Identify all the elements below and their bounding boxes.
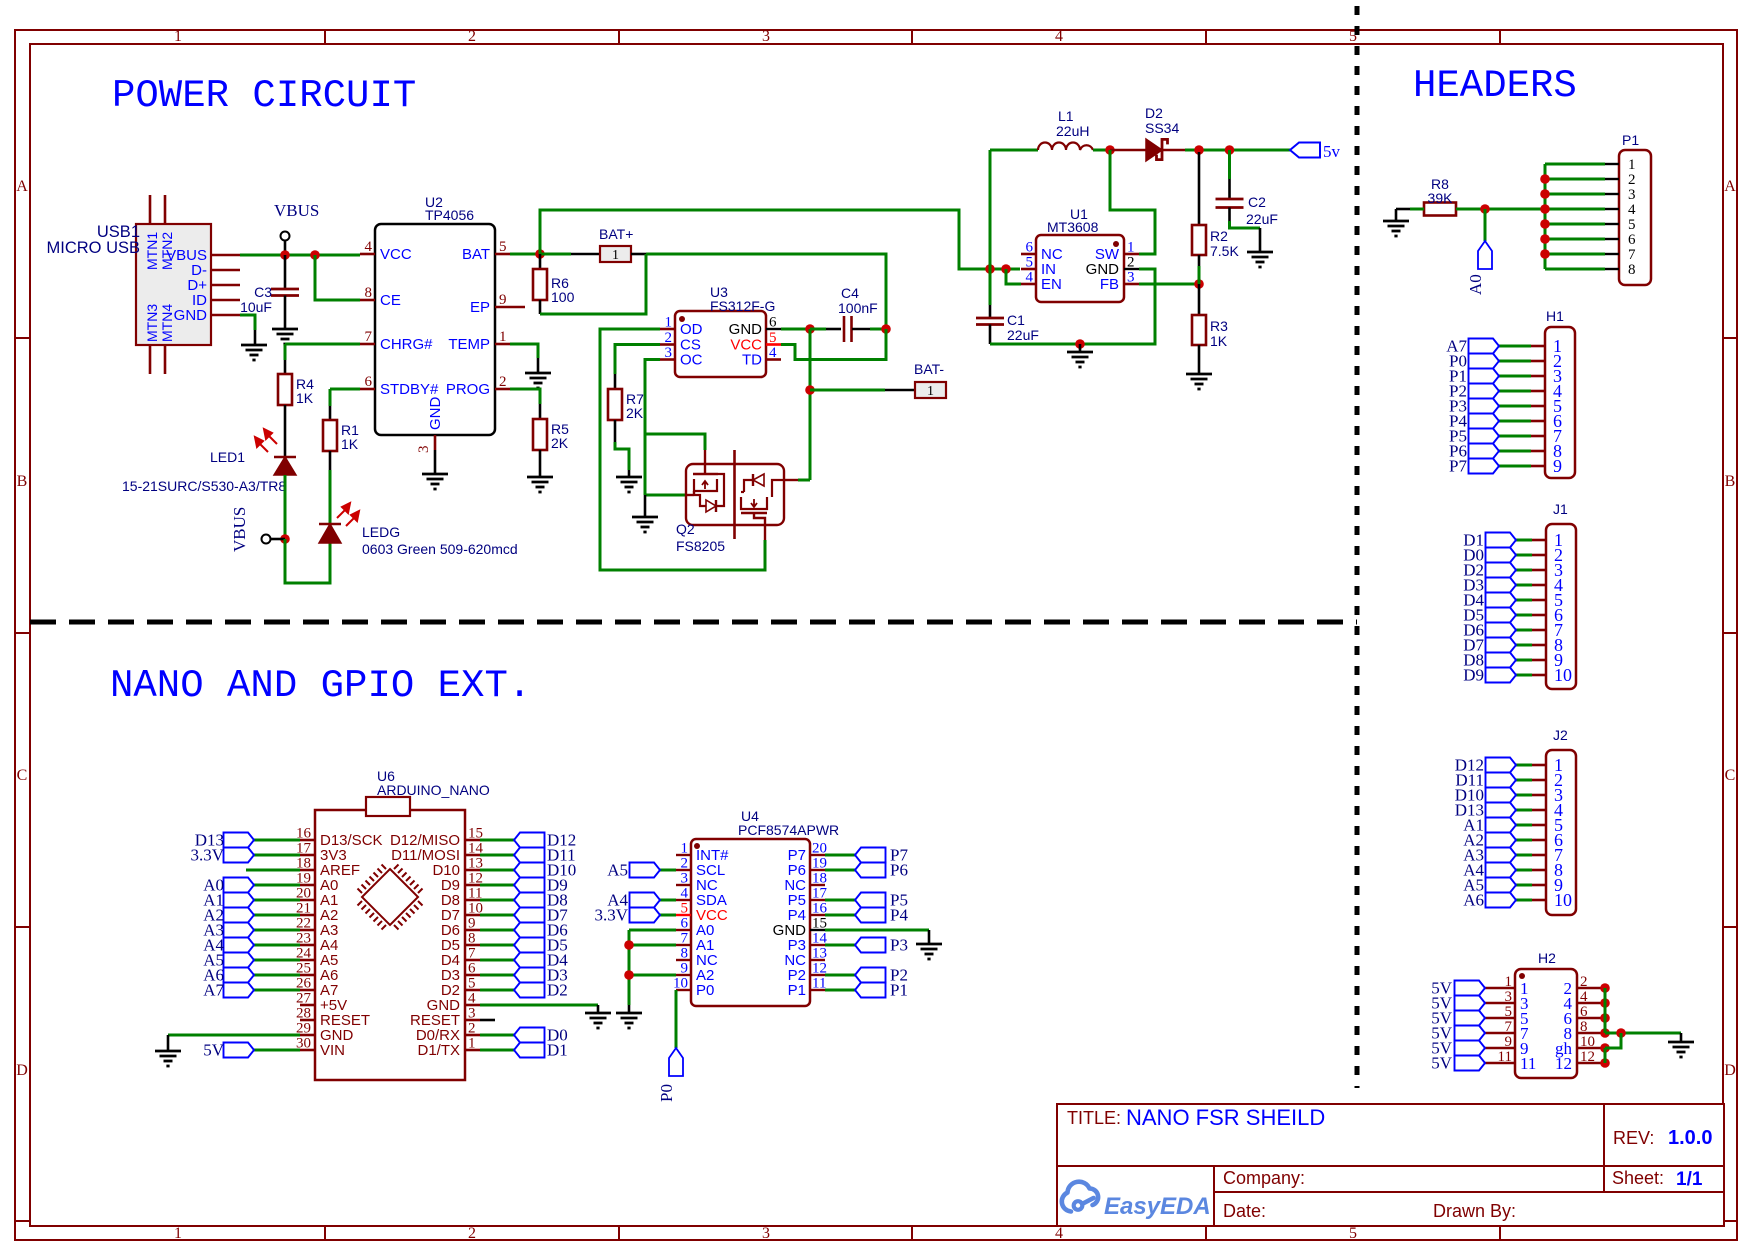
wire R1 to LEDG bbox=[329, 451, 332, 470]
svg-text:2: 2 bbox=[1127, 255, 1135, 271]
net flag D2 at U6 pin 5 bbox=[480, 989, 514, 992]
U6 pin 14 D11/MOSI bbox=[465, 854, 480, 857]
svg-text:39K: 39K bbox=[1428, 190, 1454, 206]
svg-text:P3: P3 bbox=[890, 936, 908, 955]
ground left of R8 bbox=[1383, 220, 1409, 223]
svg-text:B: B bbox=[17, 473, 28, 490]
wire PROG to R5 bbox=[510, 389, 540, 404]
U6 pin 15 D12/MISO bbox=[465, 839, 480, 842]
svg-text:P4: P4 bbox=[890, 906, 908, 925]
connector BAT+ pin 1 box bbox=[600, 246, 631, 262]
svg-text:2: 2 bbox=[681, 856, 689, 872]
svg-text:100nF: 100nF bbox=[838, 300, 878, 316]
ground under R7 bbox=[616, 476, 642, 479]
U6 pin 6 D3 bbox=[465, 974, 480, 977]
J1 pin 4 net D3 bbox=[1532, 584, 1546, 587]
net flag D13 at U6 pin 16 bbox=[254, 839, 300, 842]
wire USB1 VBUS to U2 VCC bbox=[240, 254, 360, 257]
Q2 right source pin bbox=[784, 479, 798, 481]
J2 pin 2 net D11 bbox=[1532, 779, 1546, 782]
svg-text:1: 1 bbox=[499, 329, 507, 345]
net flag D9 at U6 pin 12 bbox=[480, 884, 514, 887]
wire R7 to ground bbox=[614, 420, 617, 442]
Q2 center divider line bbox=[733, 450, 736, 539]
svg-text:10: 10 bbox=[1554, 665, 1572, 685]
svg-text:NANO AND GPIO EXT.: NANO AND GPIO EXT. bbox=[110, 664, 531, 708]
svg-text:6: 6 bbox=[1026, 240, 1034, 256]
svg-text:7: 7 bbox=[365, 329, 373, 345]
U4 pin 19 P6 bbox=[810, 869, 825, 871]
Q2 right body diode bbox=[772, 480, 784, 486]
svg-text:LED1: LED1 bbox=[210, 449, 245, 465]
net flag P4 bbox=[825, 914, 855, 917]
IC U3 FS312F-G body bbox=[675, 311, 766, 377]
U4 pin 8 NC bbox=[676, 959, 691, 961]
svg-text:2: 2 bbox=[1628, 172, 1636, 188]
svg-text:D1/TX: D1/TX bbox=[417, 1042, 460, 1059]
svg-text:2: 2 bbox=[468, 1225, 476, 1242]
U6 pin 21 A2 bbox=[300, 914, 315, 917]
connector P1 body bbox=[1619, 150, 1651, 285]
svg-text:ARDUINO_NANO: ARDUINO_NANO bbox=[377, 782, 490, 798]
wire BAT junction to BAT+ connector bbox=[540, 253, 571, 256]
Q2 left MOSFET bbox=[704, 450, 706, 474]
resistor R6 100 bbox=[539, 254, 542, 269]
J1 pin 5 net D4 bbox=[1532, 599, 1546, 602]
svg-text:LEDG: LEDG bbox=[362, 524, 400, 540]
U3 right pins bbox=[766, 328, 781, 330]
net flag P2 bbox=[825, 974, 855, 977]
ground under USB1 GND bbox=[241, 344, 267, 347]
U2 pin 9 EP bbox=[495, 306, 525, 309]
svg-text:4: 4 bbox=[769, 345, 777, 361]
svg-text:22uF: 22uF bbox=[1007, 327, 1039, 343]
U6 pin 18 AREF bbox=[300, 869, 315, 872]
U6 pin 5 D2 bbox=[465, 989, 480, 992]
svg-text:11: 11 bbox=[1520, 1054, 1536, 1073]
svg-text:1: 1 bbox=[681, 841, 689, 857]
svg-text:H2: H2 bbox=[1538, 950, 1556, 966]
svg-text:NANO FSR SHEILD: NANO FSR SHEILD bbox=[1126, 1105, 1325, 1130]
wire top rail from C1 to L1 bbox=[990, 149, 1038, 152]
svg-text:5v: 5v bbox=[1323, 142, 1341, 161]
svg-text:4: 4 bbox=[1580, 989, 1588, 1005]
svg-text:H1: H1 bbox=[1546, 308, 1564, 324]
svg-text:A7: A7 bbox=[203, 981, 224, 1000]
net flag P3 bbox=[825, 944, 855, 947]
connector BAT- pin 1 box bbox=[915, 382, 946, 398]
U4 pin 4 SDA bbox=[676, 899, 691, 901]
wire OC node to ground bbox=[644, 495, 647, 517]
svg-text:MTN4: MTN4 bbox=[159, 304, 175, 342]
LEDG arrows bbox=[337, 503, 359, 526]
wire C4 right to BAT+ node bbox=[852, 328, 870, 331]
junction L1-D2 SW node bbox=[1105, 145, 1115, 155]
svg-text:9: 9 bbox=[681, 961, 689, 977]
wire OC pin down bbox=[645, 360, 660, 496]
svg-text:HEADERS: HEADERS bbox=[1413, 64, 1577, 108]
svg-text:4: 4 bbox=[1628, 202, 1636, 218]
wire VBUS bottom to LEDG chain bbox=[285, 539, 330, 583]
ground under C3 bbox=[272, 328, 298, 331]
wire U1 GND rail bbox=[990, 269, 1155, 344]
ground under U2 GND bbox=[422, 473, 448, 476]
U6 pin 19 A0 bbox=[300, 884, 315, 887]
wire R6 bottom loop to BAT+ node bbox=[539, 300, 542, 314]
U6 pin 11 D8 bbox=[465, 899, 480, 902]
svg-text:Q2: Q2 bbox=[676, 521, 695, 537]
ground right of H2 bbox=[1668, 1041, 1694, 1044]
svg-text:12: 12 bbox=[812, 961, 827, 977]
svg-text:3: 3 bbox=[468, 1006, 476, 1022]
U6 pin 26 A7 bbox=[300, 989, 315, 992]
U6 chip glyph bbox=[358, 865, 423, 930]
net flag A7 at U6 pin 26 bbox=[254, 989, 300, 992]
svg-text:C1: C1 bbox=[1007, 312, 1025, 328]
H2 left pin 7 net 5V bbox=[1485, 1032, 1515, 1035]
junction P1 bus pin 7 bbox=[1540, 249, 1550, 259]
junction A0 branch bbox=[1480, 204, 1490, 214]
wire R4 to LED1 bbox=[284, 405, 287, 457]
capacitor C4 100nF bbox=[843, 316, 846, 342]
wire D2 to 5v flag bbox=[1163, 149, 1185, 152]
U6 top notch bbox=[366, 797, 410, 816]
svg-text:5V: 5V bbox=[203, 1041, 225, 1060]
svg-text:EN: EN bbox=[1041, 276, 1062, 293]
svg-text:C: C bbox=[1725, 767, 1736, 784]
wire STDBY# to R1 bbox=[330, 388, 360, 391]
svg-text:1K: 1K bbox=[1210, 333, 1228, 349]
H1 pin 1 net A7 bbox=[1531, 345, 1545, 348]
wire C1 vertical bbox=[989, 150, 992, 269]
svg-text:12: 12 bbox=[1580, 1049, 1595, 1065]
ground under OC node bbox=[632, 516, 658, 519]
svg-text:3: 3 bbox=[1127, 270, 1135, 286]
U6 pin 24 A5 bbox=[300, 959, 315, 962]
svg-text:C3: C3 bbox=[254, 284, 272, 300]
dashed section divider vertical bbox=[1355, 6, 1360, 1088]
svg-text:7: 7 bbox=[468, 946, 476, 962]
H2 right pin 2 bbox=[1577, 987, 1605, 990]
svg-text:EP: EP bbox=[470, 299, 490, 316]
svg-text:GND: GND bbox=[174, 307, 208, 324]
svg-text:8: 8 bbox=[468, 931, 476, 947]
U2 pin 4 VCC bbox=[360, 253, 375, 256]
svg-text:FS312F-G: FS312F-G bbox=[710, 298, 775, 314]
svg-text:3: 3 bbox=[665, 345, 673, 361]
U6 pin 3 RESET bbox=[465, 1019, 480, 1022]
svg-text:MTN3: MTN3 bbox=[144, 304, 160, 342]
junction C2 top bbox=[1225, 145, 1235, 155]
svg-text:5: 5 bbox=[499, 239, 507, 255]
H2 right pin 8 bbox=[1577, 1032, 1605, 1035]
LED LEDG bbox=[319, 523, 341, 526]
junction BAT node bbox=[535, 249, 545, 259]
ground under U4 GND15 bbox=[916, 943, 942, 946]
wire U3 GND pin to C4 bbox=[781, 328, 810, 331]
svg-text:4: 4 bbox=[468, 991, 476, 1007]
svg-text:A: A bbox=[16, 178, 28, 195]
U6 pin 22 A3 bbox=[300, 929, 315, 932]
svg-text:C: C bbox=[17, 767, 28, 784]
P1 pins and bus bbox=[1605, 163, 1619, 165]
connector H1 body bbox=[1545, 327, 1575, 478]
svg-text:9: 9 bbox=[1505, 1034, 1513, 1050]
H1 pin 7 net P5 bbox=[1531, 435, 1545, 438]
U1 pin 5 IN bbox=[1021, 268, 1036, 271]
svg-text:10: 10 bbox=[673, 976, 688, 992]
connector USB1 MICRO USB body bbox=[136, 224, 211, 345]
svg-text:Drawn By:: Drawn By: bbox=[1433, 1201, 1516, 1221]
J1 pin 7 net D6 bbox=[1532, 629, 1546, 632]
svg-text:D9: D9 bbox=[1463, 666, 1484, 685]
svg-text:OD: OD bbox=[680, 321, 703, 338]
U6 pin 29 GND bbox=[300, 1034, 315, 1037]
svg-text:10: 10 bbox=[1554, 890, 1572, 910]
svg-text:1/1: 1/1 bbox=[1676, 1169, 1703, 1190]
wire FB to divider bbox=[1139, 283, 1199, 286]
U6 pin 9 D6 bbox=[465, 929, 480, 932]
svg-text:A5: A5 bbox=[607, 861, 628, 880]
junction VBUS bottom bbox=[280, 534, 290, 544]
IC U4 PCF8574APWR body bbox=[691, 839, 810, 1006]
svg-text:10uF: 10uF bbox=[240, 299, 272, 315]
H1 pin 9 net P7 bbox=[1531, 465, 1545, 468]
U6 pin 10 D7 bbox=[465, 914, 480, 917]
U4 pin 3 NC bbox=[676, 884, 691, 886]
net flag A1 at U6 pin 20 bbox=[254, 899, 300, 902]
svg-text:VIN: VIN bbox=[320, 1042, 345, 1059]
svg-text:OC: OC bbox=[680, 352, 703, 369]
J2 pin 5 net A1 bbox=[1532, 824, 1546, 827]
svg-text:P6: P6 bbox=[890, 861, 908, 880]
capacitor C1 22uF bbox=[976, 317, 1004, 320]
H2 right pin 10 bbox=[1577, 1047, 1605, 1050]
U6 pin 13 D10 bbox=[465, 869, 480, 872]
svg-text:1: 1 bbox=[174, 1225, 182, 1242]
wire C2 bottom to ground bbox=[1228, 208, 1231, 222]
svg-text:4: 4 bbox=[365, 239, 373, 255]
U6 pin 8 D5 bbox=[465, 944, 480, 947]
resistor R8 39K bbox=[1424, 203, 1456, 216]
svg-text:PCF8574APWR: PCF8574APWR bbox=[738, 822, 839, 838]
wire BAT- branch bbox=[810, 389, 885, 392]
U1 right pins bbox=[1124, 253, 1139, 256]
U6 pin 16 D13/SCK bbox=[300, 839, 315, 842]
U6 pin 30 VIN bbox=[300, 1049, 315, 1052]
net flag D8 at U6 pin 11 bbox=[480, 899, 514, 902]
U2 pin 5 BAT bbox=[495, 253, 510, 256]
U2 pin 1 TEMP bbox=[495, 343, 510, 346]
svg-text:TEMP: TEMP bbox=[448, 336, 490, 353]
svg-text:D: D bbox=[1724, 1062, 1736, 1079]
svg-text:C2: C2 bbox=[1248, 194, 1266, 210]
IC U2 TP4056 body bbox=[375, 224, 495, 435]
wire AREF stub bbox=[246, 869, 300, 872]
wire to Q2 left source bbox=[645, 494, 686, 497]
svg-text:0603 Green 509-620mcd: 0603 Green 509-620mcd bbox=[362, 541, 518, 557]
svg-text:TITLE:: TITLE: bbox=[1067, 1108, 1121, 1128]
USB1 pin stubs bbox=[211, 254, 240, 257]
ground under U4 address pins bbox=[616, 1012, 642, 1015]
svg-text:A0: A0 bbox=[1466, 274, 1485, 295]
J2 pin 7 net A3 bbox=[1532, 854, 1546, 857]
net flag 3.3V at U4 VCC bbox=[660, 914, 676, 917]
svg-text:3.3V: 3.3V bbox=[190, 846, 224, 865]
wire U4 GND15 to ground bbox=[825, 929, 929, 932]
net flag D11 at U6 pin 14 bbox=[480, 854, 514, 857]
svg-text:SS34: SS34 bbox=[1145, 120, 1179, 136]
net flag A3 at U6 pin 22 bbox=[254, 929, 300, 932]
svg-text:3: 3 bbox=[681, 871, 689, 887]
H1 pin 8 net P6 bbox=[1531, 450, 1545, 453]
svg-text:27: 27 bbox=[296, 991, 312, 1007]
U6 pin 1 D1/TX bbox=[465, 1049, 480, 1052]
net flag D3 at U6 pin 6 bbox=[480, 974, 514, 977]
U3 pin 3 OC bbox=[660, 358, 675, 361]
svg-text:1: 1 bbox=[1505, 974, 1513, 990]
title block frame bbox=[1057, 1104, 1724, 1226]
capacitor C2 22uF bbox=[1228, 150, 1231, 179]
U4 pin 17 P5 bbox=[810, 899, 825, 901]
wire EN branch bbox=[1006, 269, 1021, 284]
wire LED1 to VBUS node bbox=[284, 475, 287, 539]
wire C3 top bbox=[284, 255, 287, 289]
J1 pin 1 net D1 bbox=[1532, 539, 1546, 542]
svg-text:9: 9 bbox=[468, 916, 476, 932]
U4 pin 12 P2 bbox=[810, 974, 825, 976]
svg-text:8: 8 bbox=[681, 946, 689, 962]
U2 pin 2 PROG bbox=[495, 388, 510, 391]
wire VCC pin routing bbox=[766, 343, 781, 345]
U6 pin 17 3V3 bbox=[300, 854, 315, 857]
net flag D1 at U6 pin 1 bbox=[480, 1049, 514, 1052]
svg-text:C4: C4 bbox=[841, 285, 859, 301]
net flag P6 bbox=[825, 869, 855, 872]
U4 pin 6 A0 bbox=[676, 929, 691, 931]
svg-text:7: 7 bbox=[681, 931, 689, 947]
net port VBUS bottom circle bbox=[271, 538, 285, 541]
H2 left pin 3 net 5V bbox=[1485, 1002, 1515, 1005]
H2 right pin 6 bbox=[1577, 1017, 1605, 1020]
svg-text:3: 3 bbox=[416, 446, 432, 454]
wire U6 GND4 to ground bbox=[480, 1004, 598, 1007]
wire C3 bottom bbox=[284, 296, 287, 330]
junction P1 bus pin 2 bbox=[1540, 174, 1550, 184]
wire U4 P0 to flag bbox=[675, 990, 678, 1048]
svg-text:4: 4 bbox=[681, 886, 689, 902]
U1 pin 4 EN bbox=[1021, 283, 1036, 286]
wire R3 to ground bbox=[1198, 345, 1201, 374]
net flag 3.3V at U6 pin 17 bbox=[254, 854, 300, 857]
svg-text:4: 4 bbox=[1026, 270, 1034, 286]
U4 pin 13 NC bbox=[810, 959, 825, 961]
svg-text:6: 6 bbox=[468, 961, 476, 977]
H2 ground bus bbox=[1604, 988, 1607, 1033]
svg-text:MICRO USB: MICRO USB bbox=[46, 239, 140, 257]
diode D2 SS34 schottky bbox=[1146, 139, 1162, 161]
wire C1 bottom to GND rail bbox=[989, 325, 992, 345]
svg-text:J1: J1 bbox=[1553, 501, 1568, 517]
LED1 arrows bbox=[255, 429, 277, 452]
svg-text:P1: P1 bbox=[890, 981, 908, 1000]
ground under C2 bbox=[1247, 251, 1273, 254]
Q2 left source lead bbox=[686, 494, 694, 496]
svg-text:12: 12 bbox=[1555, 1054, 1572, 1073]
svg-text:15: 15 bbox=[812, 916, 827, 932]
net flag A0 at U6 pin 19 bbox=[254, 884, 300, 887]
svg-text:STDBY#: STDBY# bbox=[380, 381, 439, 398]
svg-text:1K: 1K bbox=[341, 436, 359, 452]
inductor L1 22uH bbox=[1038, 143, 1093, 150]
svg-text:3: 3 bbox=[762, 28, 770, 45]
connector J2 body bbox=[1546, 750, 1576, 915]
svg-text:POWER CIRCUIT: POWER CIRCUIT bbox=[112, 74, 416, 118]
wire BAT pin to junction bbox=[510, 253, 540, 256]
junction IN node EN bbox=[1001, 264, 1011, 274]
wire U2 GND to ground bbox=[434, 450, 437, 474]
svg-text:6: 6 bbox=[1580, 1004, 1588, 1020]
U4 pin 9 A2 bbox=[676, 974, 691, 976]
svg-text:VBUS: VBUS bbox=[230, 507, 249, 552]
net flag D0 at U6 pin 2 bbox=[480, 1034, 514, 1037]
wire U3 GND down to BAT- and Q2 bbox=[809, 329, 812, 480]
net flag A5 at U6 pin 24 bbox=[254, 959, 300, 962]
H2 ground bus jog bbox=[1605, 1033, 1621, 1048]
svg-text:100: 100 bbox=[551, 289, 575, 305]
J1 pin 10 net D9 bbox=[1532, 674, 1546, 677]
svg-text:20: 20 bbox=[812, 841, 827, 857]
net flag A5 at U4 SCL bbox=[660, 869, 676, 872]
net flag D5 at U6 pin 8 bbox=[480, 944, 514, 947]
svg-text:5: 5 bbox=[681, 901, 689, 917]
H2 left pin 5 net 5V bbox=[1485, 1017, 1515, 1020]
junction R2 top bbox=[1194, 145, 1204, 155]
svg-text:2K: 2K bbox=[551, 435, 569, 451]
svg-text:TP4056: TP4056 bbox=[425, 207, 474, 223]
net flag D4 at U6 pin 7 bbox=[480, 959, 514, 962]
junction IN node C1 bbox=[985, 264, 995, 274]
svg-text:28: 28 bbox=[296, 1006, 311, 1022]
svg-text:Sheet:: Sheet: bbox=[1612, 1168, 1664, 1188]
junction P1 bus pin 5 bbox=[1540, 219, 1550, 229]
net flag A2 at U6 pin 21 bbox=[254, 914, 300, 917]
svg-text:1: 1 bbox=[174, 28, 182, 45]
U6 pin 23 A4 bbox=[300, 944, 315, 947]
IC U6 ARDUINO_NANO body bbox=[315, 810, 465, 1080]
svg-text:GND: GND bbox=[729, 321, 763, 338]
svg-text:3: 3 bbox=[762, 1225, 770, 1242]
J2 pin 10 net A6 bbox=[1532, 899, 1546, 902]
wire BAT long rail to U1 bbox=[540, 210, 1020, 269]
svg-text:1.0.0: 1.0.0 bbox=[1668, 1127, 1712, 1149]
ground under R3 bbox=[1186, 373, 1212, 376]
svg-text:2: 2 bbox=[468, 1021, 476, 1037]
svg-text:5: 5 bbox=[1505, 1004, 1513, 1020]
U6 pin 7 D4 bbox=[465, 959, 480, 962]
svg-text:5: 5 bbox=[1628, 217, 1636, 233]
U3 pin 1 OD bbox=[660, 328, 675, 331]
svg-text:PROG: PROG bbox=[446, 381, 490, 398]
junction FB node bbox=[1194, 279, 1204, 289]
H2 left pin 9 net 5V bbox=[1485, 1047, 1515, 1050]
ground under TEMP bbox=[525, 372, 551, 375]
svg-text:1: 1 bbox=[665, 315, 673, 331]
wire R8 right to P1 bus bbox=[1456, 208, 1545, 211]
J2 pin 3 net D10 bbox=[1532, 794, 1546, 797]
LED LED1 bbox=[274, 456, 296, 459]
svg-text:P0: P0 bbox=[657, 1084, 676, 1102]
